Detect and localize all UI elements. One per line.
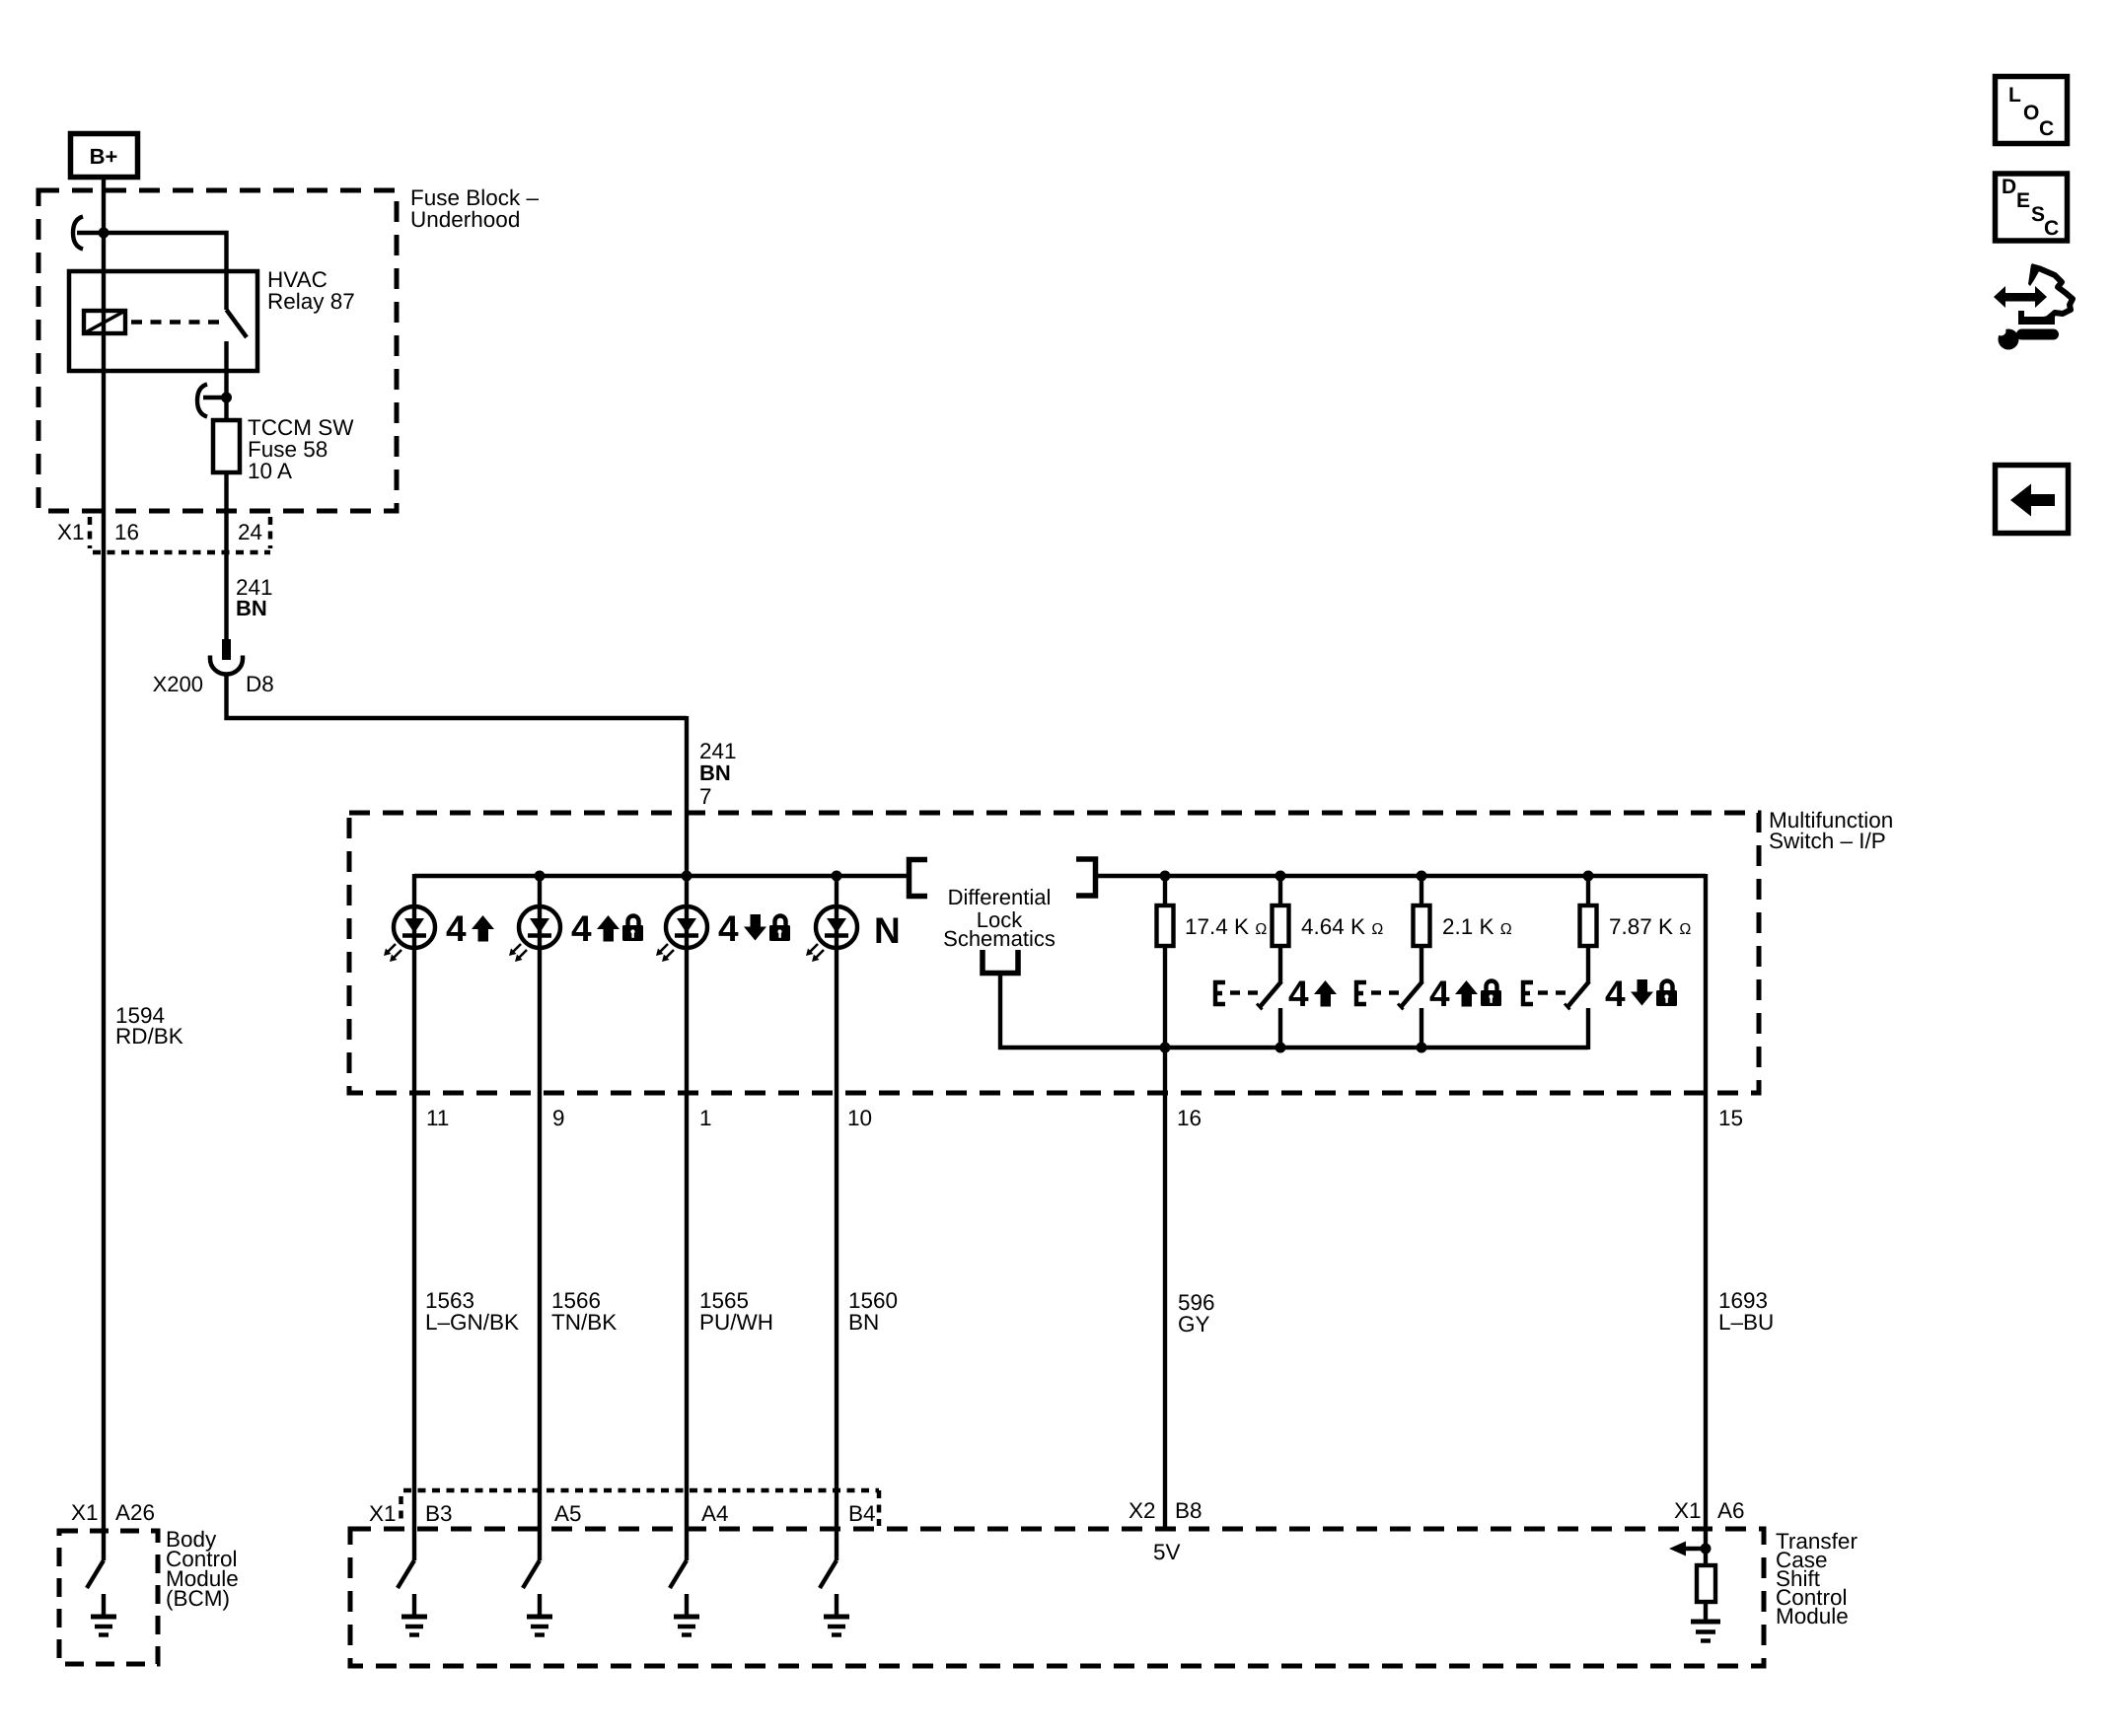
switch 4 Hi mechanical linkage E [1215,982,1258,1004]
svg-text:(BCM): (BCM) [166,1586,230,1611]
Multifunction Switch I/P dashed box [349,813,1759,1093]
wire branch inside fuse block to relay [77,233,227,310]
svg-text:Schematics: Schematics [943,926,1056,951]
svg-text:7.87 K Ω: 7.87 K Ω [1609,914,1691,939]
svg-text:B4: B4 [848,1501,876,1526]
label Fuse Block - Underhood [410,185,540,232]
switch to ground inside module at pin B3 [398,1560,414,1588]
svg-text:11: 11 [426,1106,449,1130]
diagnostic tools icon [1994,264,2073,350]
junction at (1181,888) [1160,871,1171,882]
switch to ground inside BCM [87,1560,104,1588]
wire resistor supply bus [1096,874,1706,878]
svg-text:N: N [874,910,901,951]
label wire 1594 RD/BK [115,1003,183,1049]
connector X1 pin A6 labels [1674,1498,1745,1523]
svg-text:X200: X200 [153,672,203,696]
label wire 596 GY [1178,1290,1215,1337]
switch 4 Hi Lock blade [1398,981,1422,1010]
back arrow navigation icon [1996,466,2069,534]
svg-text:L–GN/BK: L–GN/BK [425,1310,519,1335]
wire resistor column 7.87K [1586,876,1590,1049]
junction at (229.5,403) [221,393,232,403]
fuse TCCM SW Fuse 58 10 A [213,420,240,472]
off-page connector bracket right [1076,859,1096,896]
ground BCM [91,1594,116,1635]
wire 1560 BN LED column pin 10 [835,876,838,1560]
svg-text:Differential: Differential [948,885,1052,909]
svg-text:A26: A26 [115,1500,155,1525]
svg-text:16: 16 [1177,1106,1202,1130]
label TCCM SW Fuse 58 10 A [248,415,354,483]
label 4 Lo Lock switch [1605,974,1677,1014]
switch to ground inside module at pin A4 [670,1560,687,1588]
relay coil [84,311,125,333]
svg-text:L–BU: L–BU [1718,1310,1774,1335]
bus stub clip at fuse 58 feed [197,385,226,417]
resistor 17.4 K ohm [1157,905,1174,946]
ground at pin A6 [1691,1622,1720,1641]
label wire 1560 BN [848,1288,898,1335]
indicator LED at column x=696 [656,906,707,962]
switch to ground inside module at pin A5 [523,1560,540,1588]
svg-text:E: E [2016,189,2030,212]
svg-text:X1: X1 [1674,1498,1702,1523]
svg-text:1: 1 [699,1106,712,1130]
svg-text:A5: A5 [554,1501,582,1526]
junction at (105,236) [99,228,109,239]
inline connector X200 terminal D8 [210,639,243,674]
svg-text:C: C [2044,217,2059,240]
switch 4 Hi Lock mechanical linkage E [1356,982,1399,1004]
wire 1565 PU/WH LED column pin 1 [685,716,689,1560]
junction at (1441,888) [1417,871,1427,882]
switch 4 Lo Lock mechanical linkage E [1523,982,1566,1004]
signal arrow at pin A6 [1669,1542,1706,1556]
svg-text:O: O [2023,102,2039,124]
connector X2 pin B8 labels [1129,1498,1202,1523]
junction at (1441,1062) [1417,1043,1427,1053]
svg-text:A4: A4 [701,1501,729,1526]
label Differential Lock Schematics [943,885,1056,951]
indicator LED at column x=848 [806,906,857,962]
label Transfer Case Shift Control Module [1776,1529,1858,1628]
junction at (547,888) [535,871,546,882]
svg-text:X1: X1 [71,1500,99,1525]
junction at (848,888) [832,871,842,882]
switch 4 Lo Lock blade [1565,981,1589,1010]
svg-text:15: 15 [1718,1106,1743,1130]
wire relay to fuse 58 [224,341,228,420]
off-page connector bracket left [910,860,928,897]
svg-text:10: 10 [847,1106,872,1130]
indicator LED at column x=420 [384,906,435,962]
svg-text:4: 4 [446,908,467,949]
junction at (1298,1062) [1275,1043,1286,1053]
label 4 Hi switch [1288,974,1337,1014]
svg-text:9: 9 [552,1106,565,1130]
svg-text:17.4 K Ω: 17.4 K Ω [1185,914,1267,939]
svg-text:X2: X2 [1129,1498,1156,1523]
wire 1594 RD/BK from B+ to BCM [102,179,106,1560]
wire resistor column 2.1K [1420,876,1423,1049]
svg-text:24: 24 [238,520,262,544]
junction at (1181,1062) [1160,1043,1171,1053]
relay switch blade [227,310,248,337]
svg-text:PU/WH: PU/WH [699,1310,773,1335]
LOC navigation icon [1996,77,2068,144]
pull-down resistor at pin A6 [1697,1565,1715,1602]
svg-text:RD/BK: RD/BK [115,1024,183,1049]
indicator LED at column x=547 [509,906,560,962]
svg-text:X1: X1 [57,520,85,544]
svg-text:BN: BN [699,760,731,785]
wire resistor column 4.64K [1278,876,1282,1049]
Body Control Module dashed box [59,1531,158,1664]
resistor 2.1 K ohm [1414,905,1430,946]
label 4 Hi Lock LED [571,908,643,949]
label Body Control Module (BCM) [166,1527,239,1611]
svg-text:4.64 K Ω: 4.64 K Ω [1301,914,1383,939]
svg-text:4: 4 [571,908,592,949]
B+ battery feed symbol [71,134,138,178]
label wire 1693 L-BU [1718,1288,1774,1335]
label 4 Hi LED [446,908,494,949]
label wire 1565 PU/WH [699,1288,773,1335]
switch to ground inside module at pin B4 [820,1560,837,1588]
wire 1693 L-BU pin 15 column [1704,874,1708,1622]
ground A4 [674,1594,699,1635]
relay HVAC Relay 87 box [69,271,257,371]
svg-text:7: 7 [699,784,712,809]
wire 241 BN X200 to multifunction switch pin 7 [227,675,688,718]
svg-text:D8: D8 [246,672,274,696]
label 4 Hi Lock switch [1429,974,1501,1014]
label wire 1566 TN/BK [551,1288,617,1335]
svg-text:TN/BK: TN/BK [551,1310,617,1335]
DESC navigation icon [1996,174,2068,241]
svg-text:BN: BN [848,1310,879,1335]
wire 241 BN fuse to X200 [224,472,228,641]
junction at (1298,888) [1275,871,1286,882]
svg-text:16: 16 [114,520,139,544]
svg-text:4: 4 [1429,974,1450,1014]
svg-text:BN: BN [236,596,267,620]
svg-text:S: S [2031,203,2045,226]
ground B4 [824,1594,849,1635]
svg-text:4: 4 [1288,974,1309,1014]
junction at (1729,1570) [1701,1544,1712,1555]
label HVAC Relay 87 [267,267,355,314]
svg-text:5V: 5V [1153,1540,1181,1564]
svg-text:GY: GY [1178,1312,1210,1337]
junction at (696,888) [682,871,692,882]
off-page U bracket to diff lock schematics [983,950,1018,974]
label 4 Lo Lock LED [718,908,790,949]
switch 4 Hi blade [1257,981,1281,1010]
label wire 241 BN [236,575,273,620]
label wire 241 BN to pin 7 [699,739,737,785]
wire 596 GY resistor column pin 16 to 5V [1163,876,1167,1529]
svg-text:B8: B8 [1175,1498,1202,1523]
connector X1 pins 16 24 row [90,517,270,552]
svg-text:D: D [2002,176,2016,198]
svg-text:A6: A6 [1717,1498,1745,1523]
ground B3 [401,1594,427,1635]
svg-text:10 A: 10 A [248,459,292,483]
svg-text:4: 4 [718,908,739,949]
wire 1563 L-GN/BK LED column pin 11 [412,874,416,1560]
bus stub clip left of junction [73,217,83,250]
wire 1566 TN/BK LED column pin 9 [538,876,542,1560]
resistor 7.87 K ohm [1580,905,1597,946]
svg-text:4: 4 [1605,974,1626,1014]
svg-text:Module: Module [1776,1604,1849,1628]
wire LED supply bus [414,874,907,878]
svg-text:B+: B+ [90,144,118,169]
label Multifunction Switch - I/P [1769,808,1893,853]
ground A5 [527,1594,552,1635]
svg-text:L: L [2008,84,2021,107]
Fuse Block - Underhood dashed box [38,190,397,511]
Transfer Case Shift Control Module dashed box [350,1529,1764,1666]
svg-text:B3: B3 [425,1501,453,1526]
svg-text:Switch – I/P: Switch – I/P [1769,829,1886,853]
connector X1 row pins B3 A5 A4 B4 [401,1490,880,1526]
svg-text:Underhood: Underhood [410,207,520,232]
resistor 4.64 K ohm [1273,905,1289,946]
svg-text:X1: X1 [369,1501,397,1526]
junction at (1610,888) [1583,871,1594,882]
svg-text:C: C [2039,117,2054,140]
relay mechanical linkage [131,320,219,325]
svg-text:Relay 87: Relay 87 [267,289,355,314]
connector X1 pin A26 labels [71,1500,155,1525]
wire switch common return bus [1000,974,1588,1048]
label wire 1563 L-GN/BK [425,1288,519,1335]
